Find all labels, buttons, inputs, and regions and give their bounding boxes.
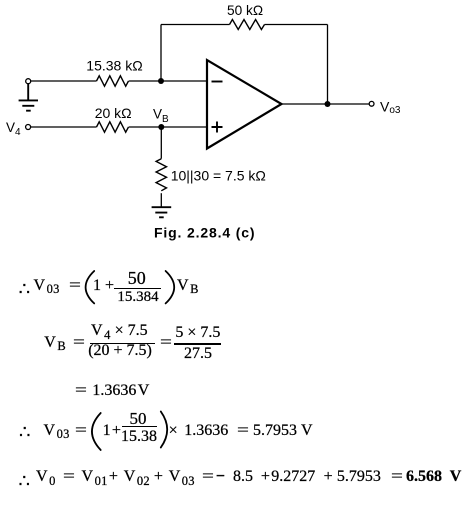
equals [160,335,169,351]
numerator 50 [128,269,146,287]
wire: feedback left vertical [160,25,162,82]
fraction bar 1 [90,343,155,344]
big paren L1 left [86,271,95,303]
1 + [103,423,121,439]
1 + [93,278,114,294]
plus [261,469,270,485]
wire: row1 [31,80,207,82]
denominator 15.38 [121,429,157,445]
svg-text:Fig. 2.28.4 (c): Fig. 2.28.4 (c) [154,224,255,240]
6.568 V bold [406,469,461,485]
svg-text:20 kΩ: 20 kΩ [95,105,132,121]
ground 2 [152,207,172,217]
big paren L1 right [166,271,175,303]
node: junction row1/feedback [158,78,164,84]
VB [177,278,199,294]
equals [75,423,84,439]
op-amp plus sign [212,122,223,133]
op-amp minus sign [212,81,223,83]
denominator (20 + 7.5) [88,343,152,359]
denominator 27.5 [184,346,212,362]
node B junction [158,124,164,130]
plus [109,469,118,485]
resistor 20k zigzag [97,122,129,132]
svg-text:10||30 = 7.5 kΩ: 10||30 = 7.5 kΩ [171,167,266,183]
node: output junction [325,101,331,107]
V03 [34,278,60,294]
plus [324,469,333,485]
fraction bar 2 [174,343,221,344]
fraction bar [122,426,158,427]
plus [154,469,163,485]
op-amp U1 triangle [207,60,282,149]
svg-text:Vo3: Vo3 [380,98,401,116]
numerator V4 x 7.5 [91,323,148,339]
svg-text:15.38 kΩ: 15.38 kΩ [86,58,142,74]
denominator 15.384 [117,290,158,305]
big paren L4 right [161,412,167,448]
equals [69,278,78,294]
therefore [19,280,30,298]
wire: row2 [31,126,207,128]
svg-text:50 kΩ: 50 kΩ [227,3,263,18]
equation line 3: = 1.3636 V [75,383,84,399]
wire: feedback right vertical [327,25,329,105]
svg-text:V4: V4 [6,120,21,138]
5.7953 V [253,423,297,439]
5.7953 [337,469,381,485]
input terminal V4 circle [26,125,31,130]
wire: resistor to ground 2 [160,193,162,207]
equals [63,469,72,485]
V02 [124,469,150,485]
9.2727 [271,469,315,485]
minus [216,469,225,485]
resistor 15.38k zigzag [97,76,129,86]
ground 1 [19,84,38,111]
8.5 [233,469,253,485]
times 1.3636 [169,423,178,439]
V0 [36,469,56,485]
equals [202,469,211,485]
big paren L4 left [92,413,101,450]
fraction bar [114,288,161,289]
wire: VB down to resistor [160,127,162,159]
therefore [19,472,30,490]
V03 [44,423,70,439]
resistor 7.5k vertical zigzag [156,159,166,191]
equals [237,423,246,439]
V03 [169,469,195,485]
equals [73,335,82,351]
svg-text:VB: VB [153,107,169,126]
numerator 5 x 7.5 [175,325,220,341]
numerator 50 [130,410,147,427]
therefore [19,423,30,441]
VB [44,335,66,351]
output terminal circle [369,101,374,106]
input terminal 1 circle [26,79,31,84]
equals [391,469,400,485]
wire: feedback top horizontal [161,24,328,26]
V01 [82,469,108,485]
resistor 50k zigzag [230,20,265,30]
wire: output [282,103,370,105]
